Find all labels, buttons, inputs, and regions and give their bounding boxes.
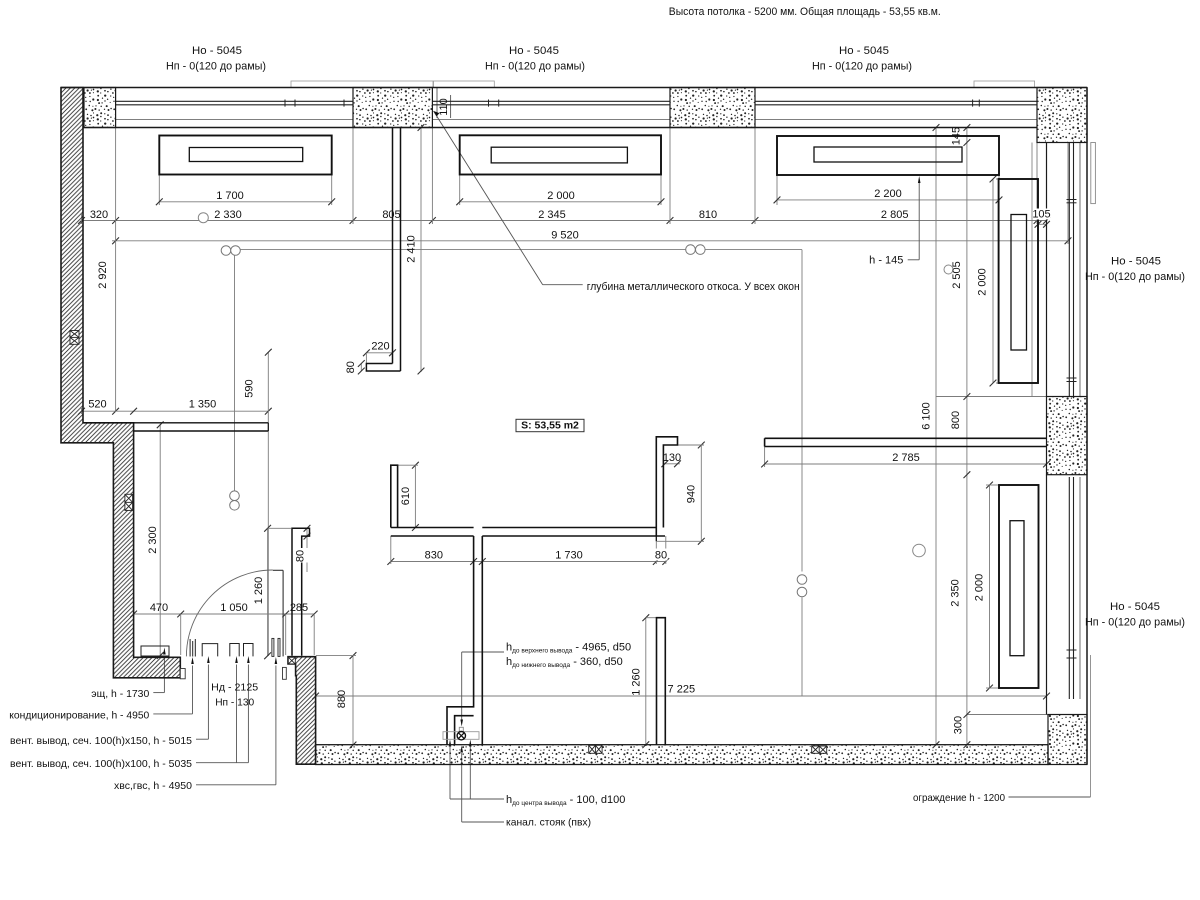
single ceiling outlet near 2330: [198, 213, 208, 223]
svg-text:Нд - 2125: Нд - 2125: [211, 681, 258, 693]
svg-text:470: 470: [150, 602, 168, 614]
outer sill strip above top wall mid: [434, 81, 495, 88]
svg-text:880: 880: [336, 690, 348, 708]
stoyak drain symbol circle-cross: [457, 732, 465, 740]
leader: esch panel: [153, 692, 164, 694]
concrete corner pier top-right: [1037, 88, 1087, 143]
svg-text:830: 830: [425, 549, 443, 561]
door jamb notch left: [180, 669, 185, 679]
svg-text:ограждение h - 1200: ограждение h - 1200: [913, 792, 1005, 804]
svg-text:610: 610: [400, 487, 412, 505]
svg-text:2 200: 2 200: [874, 188, 902, 200]
window1 glazing lines: [116, 100, 353, 102]
window2 glazing lines: [432, 100, 670, 102]
dim 940 partition right: [700, 445, 702, 541]
stoyak valve small square: [459, 727, 463, 731]
vent shaft box on left wall lower: [125, 494, 133, 510]
dim text 105 top: [1033, 209, 1050, 220]
right wall outer line: [1086, 88, 1088, 765]
svg-text:940: 940: [686, 485, 698, 503]
stoyak outlet bar: [443, 732, 479, 740]
concrete pier3: [670, 88, 755, 128]
svg-text:S: 53,55 m2: S: 53,55 m2: [521, 420, 579, 432]
vent duct symbol 100x100 b: [244, 644, 254, 657]
svg-text:Нп - 130: Нп - 130: [215, 696, 254, 708]
svg-text:520: 520: [88, 399, 106, 411]
svg-text:1 700: 1 700: [216, 190, 244, 202]
dim 880 vertical at x=353: [352, 656, 354, 745]
right wall window4 glazing: [1068, 143, 1070, 397]
dim 1260 right partition: [645, 618, 647, 745]
radiator convector right-bottom: [999, 485, 1039, 688]
single ceiling outlet right-top: [944, 265, 953, 274]
svg-text:Нп - 0(120 до рамы): Нп - 0(120 до рамы): [166, 61, 266, 73]
window1 mullions: [284, 100, 286, 107]
window3 glazing lines: [755, 100, 1037, 102]
text: S area box: [516, 419, 584, 431]
svg-text:Нп - 0(120 до рамы): Нп - 0(120 до рамы): [1085, 271, 1185, 283]
ceiling light pair D: [797, 575, 807, 585]
leader: conditioning: [153, 713, 192, 715]
top wall inner face line: [83, 127, 1037, 129]
door-side partition with flange: [292, 528, 310, 656]
leader: vent 100x100 double: [196, 762, 248, 764]
balcony floor slab speckled: [316, 745, 1048, 765]
dim row 830/1730/80 under partition: [391, 561, 666, 563]
partition small step at 541: [655, 536, 657, 541]
dim row: 9520 overall width: [112, 240, 1070, 242]
left exterior wall hatched polygon: [61, 88, 180, 678]
svg-text:вент. вывод, сеч. 100(h)x150,: вент. вывод, сеч. 100(h)x150, h - 5015: [10, 735, 192, 747]
svg-text:110: 110: [438, 98, 450, 116]
dim text 80 partition: [655, 549, 668, 561]
dim extension lines from window edges: [352, 128, 354, 225]
ledge wall 2785: [765, 438, 1047, 446]
svg-text:80: 80: [295, 550, 307, 562]
svg-text:810: 810: [699, 209, 717, 221]
svg-text:2 300: 2 300: [147, 526, 159, 554]
dim text 80 door flange rotated: [298, 548, 309, 563]
svg-text:7 225: 7 225: [668, 684, 696, 696]
svg-text:кондиционирование, h - 4950: кондиционирование, h - 4950: [9, 710, 149, 722]
svg-text:2 345: 2 345: [538, 209, 566, 221]
U-shaped partition right vertical with hook: [656, 437, 677, 536]
dim 2000 right radiator top: [992, 179, 994, 383]
stoyak partition double line: [447, 536, 482, 745]
svg-text:2 410: 2 410: [406, 235, 418, 263]
conditioning outlet 3 lines: [189, 639, 191, 657]
svg-text:2 920: 2 920: [97, 261, 109, 289]
window2 mullions: [488, 100, 490, 107]
stoyak box: [455, 716, 474, 745]
leader: h verhnego/nizhnego vyvoda: [462, 651, 504, 653]
vent box on slab right: [812, 746, 827, 753]
dim row 470/1050/285 door opening: [134, 613, 315, 615]
svg-text:2 000: 2 000: [974, 574, 986, 602]
svg-text:1 260: 1 260: [631, 668, 643, 696]
dim 610 left partition: [414, 465, 416, 527]
svg-text:2 805: 2 805: [881, 209, 909, 221]
svg-text:вент. вывод, сеч. 100(h)x100,: вент. вывод, сеч. 100(h)x100, h - 5035: [10, 758, 192, 770]
right lower partition wall: [657, 618, 666, 745]
balcony railing top right: [1091, 143, 1096, 204]
leader: h-145: [908, 259, 920, 261]
top exterior wall outer line: [61, 87, 1087, 89]
ceiling light pair A: [221, 246, 231, 256]
radiator convector 1 under window1: [159, 136, 331, 175]
svg-text:хвс,гвс, h - 4950: хвс,гвс, h - 4950: [114, 780, 192, 792]
svg-text:800: 800: [950, 411, 962, 429]
svg-text:глубина металлического откоса.: глубина металлического откоса. У всех ок…: [587, 281, 800, 293]
svg-text:80: 80: [345, 361, 357, 373]
dim 590 vertical at x=268: [267, 352, 269, 656]
svg-text:300: 300: [953, 716, 965, 734]
window4 mullions: [1067, 199, 1077, 201]
svg-text:130: 130: [663, 452, 681, 464]
dim 2785 ledge: [764, 447, 766, 468]
ceiling light pair B: [686, 245, 696, 255]
vent box on slab left: [589, 745, 602, 753]
svg-text:эщ, h - 1730: эщ, h - 1730: [91, 688, 149, 700]
dim 2000 right radiator bottom: [989, 485, 991, 688]
leader: glubina otkosa diagonal: [434, 111, 543, 285]
vent duct symbol 100x100 a: [230, 644, 239, 657]
window3 mullions: [972, 100, 974, 107]
svg-text:105: 105: [1032, 209, 1050, 221]
outer sill strip above top wall left: [291, 81, 433, 88]
svg-text:2 000: 2 000: [977, 268, 989, 296]
leader: kanal stoyak: [462, 821, 504, 823]
svg-text:285: 285: [290, 602, 308, 614]
svg-text:1 730: 1 730: [555, 549, 583, 561]
svg-text:Нп - 0(120 до рамы): Нп - 0(120 до рамы): [485, 61, 585, 73]
svg-text:Но - 5045: Но - 5045: [509, 45, 559, 57]
left wall dim 2920 vertical: [115, 224, 117, 411]
U-shaped partition horizontal: [391, 528, 665, 537]
U-shaped partition left vertical: [391, 465, 398, 527]
svg-text:Но - 5045: Но - 5045: [1111, 256, 1161, 268]
leader: ograzhdenie railing: [1009, 796, 1091, 798]
svg-text:1 350: 1 350: [189, 399, 217, 411]
dim 300 extension bottom right: [967, 714, 1048, 716]
vent shaft box on left wall upper: [70, 331, 79, 345]
svg-text:Но - 5045: Но - 5045: [192, 45, 242, 57]
dim: radiator2 2000: [459, 175, 461, 206]
entry door swing arc: [186, 570, 272, 656]
ceiling light pair C: [230, 491, 240, 501]
dim 1260 door leaf: [267, 528, 269, 656]
svg-text:320: 320: [90, 209, 108, 221]
wall stub from top wall (vent duct): [366, 128, 400, 372]
radiator convector 2 under window2: [460, 135, 661, 174]
svg-text:2 350: 2 350: [950, 579, 962, 607]
svg-text:Высота потолка - 5200 мм. Обща: Высота потолка - 5200 мм. Общая площадь …: [669, 6, 941, 18]
leader: hvs gvs: [196, 784, 276, 786]
svg-text:145: 145: [951, 127, 963, 145]
dim 7225 horizontal: [316, 695, 1047, 697]
svg-text:Нп - 0(120 до рамы): Нп - 0(120 до рамы): [812, 61, 912, 73]
svg-text:1 260: 1 260: [253, 577, 265, 605]
right wall window5 glazing: [1068, 477, 1070, 699]
balcony railing bottom right: [1090, 655, 1092, 797]
dim row 520/1350 at left: [82, 410, 269, 412]
svg-text:канал. стояк (пвх): канал. стояк (пвх): [506, 817, 591, 829]
leader: vent 100x150: [196, 738, 208, 740]
svg-text:h - 145: h - 145: [869, 255, 903, 267]
door-side wall stub hatched: [288, 657, 316, 765]
door jamb notch right: [283, 667, 287, 679]
single ceiling outlet right-mid: [913, 544, 926, 557]
dim 105 top right: [1038, 223, 1047, 225]
svg-text:805: 805: [382, 209, 400, 221]
svg-text:1 050: 1 050: [220, 602, 248, 614]
svg-text:2 000: 2 000: [547, 190, 575, 202]
svg-text:Но - 5045: Но - 5045: [839, 45, 889, 57]
dim 220 at wall stub return: [366, 352, 392, 354]
ceiling light circuit line horizontal: [240, 249, 802, 251]
svg-text:Но - 5045: Но - 5045: [1110, 601, 1160, 613]
dim 130 partition hook: [663, 463, 680, 465]
electric panel esch: [141, 646, 169, 656]
vent shaft box on door stub: [288, 657, 295, 664]
dim 2410 vertical wall stub: [420, 128, 422, 373]
right wall inner face segments: [1046, 143, 1048, 397]
ceiling light circuit vertical x=234: [234, 255, 236, 490]
entry door leaf: [282, 570, 284, 656]
leader: h centra vyvoda double: [450, 798, 504, 800]
svg-text:9 520: 9 520: [551, 229, 579, 241]
svg-text:220: 220: [371, 341, 389, 353]
low cabinet lines at left wall jog: [83, 422, 268, 424]
radiator convector 3 under window3: [777, 136, 999, 175]
svg-text:2 330: 2 330: [214, 209, 242, 221]
dim: radiator1 1700: [158, 175, 160, 205]
svg-text:Нп - 0(120 до рамы): Нп - 0(120 до рамы): [1085, 617, 1185, 629]
dim 80 door-wall flange: [306, 528, 308, 572]
dim row: window widths 320/2330/805/2345/810/2805: [82, 220, 1047, 222]
dim 80 wall stub thickness: [360, 364, 362, 372]
hvs gvs pipes: [272, 638, 274, 656]
concrete pier mid-right: [1047, 397, 1088, 475]
ceiling light circuit vertical x=802: [801, 250, 803, 572]
concrete pier2: [353, 88, 432, 128]
svg-text:2 505: 2 505: [951, 261, 963, 289]
svg-text:2 785: 2 785: [892, 452, 920, 464]
dim: radiator3 2200: [776, 175, 778, 205]
left wall inner corner line: [83, 422, 134, 424]
svg-text:6 100: 6 100: [921, 402, 933, 430]
concrete pier1: [84, 88, 116, 128]
window4 niche back line: [1031, 143, 1033, 397]
dim 2300 vertical at x=160: [159, 424, 161, 656]
dim 6100 vertical x=936: [935, 128, 937, 745]
dim 110 window offset leader at pier2: [436, 88, 438, 118]
outer sill strip above top wall right: [974, 81, 1035, 88]
svg-text:80: 80: [655, 549, 667, 561]
concrete corner block bottom-right: [1048, 715, 1087, 765]
window5 mullions: [1067, 649, 1077, 651]
svg-text:590: 590: [244, 379, 256, 397]
vent duct symbol 100x150: [202, 644, 218, 657]
dim chain 145/2505/800/2350/300 x=967: [966, 128, 968, 745]
radiator convector right-top: [999, 179, 1038, 383]
